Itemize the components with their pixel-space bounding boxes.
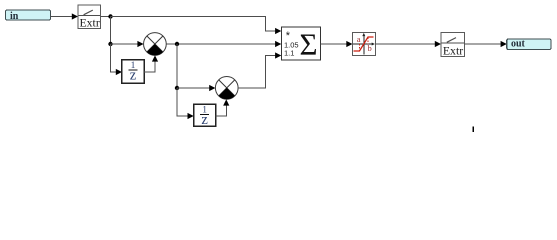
junction node B bbox=[108, 42, 112, 46]
summing junction S1 bbox=[144, 33, 167, 56]
wire S2 output to sum-block input 3 bbox=[238, 56, 276, 89]
svg-text:Extr: Extr bbox=[443, 43, 463, 57]
wire Extr1 output to junction bbox=[101, 16, 111, 18]
svg-text:z: z bbox=[130, 68, 137, 84]
wire saturation to Extr2 bbox=[376, 43, 437, 45]
svg-text:z: z bbox=[201, 112, 208, 128]
stray tick mark bbox=[472, 127, 474, 133]
wire node A down to node B bbox=[110, 17, 112, 45]
wire node D down to unit-delay 2 input bbox=[177, 88, 189, 116]
svg-text:out: out bbox=[511, 39, 526, 50]
wire node A to sum-block input 1 (top route) bbox=[111, 17, 277, 32]
wire node B down to unit-delay 1 input bbox=[111, 44, 118, 72]
weighted sum block U2 (BIGSOM) bbox=[281, 27, 320, 62]
svg-text:a: a bbox=[357, 34, 361, 44]
junction node D bbox=[175, 86, 179, 90]
wire Z2 output up into S2 bbox=[216, 104, 227, 116]
svg-text:b: b bbox=[368, 43, 372, 53]
wire node B to summer S1 bbox=[111, 43, 139, 45]
wire node D to summer S2 bbox=[177, 87, 210, 89]
summing junction S2 bbox=[215, 77, 238, 100]
wire in to Extr1 bbox=[51, 13, 79, 19]
unit delay block 1/z Z2 bbox=[194, 104, 216, 128]
block Extr U4 bbox=[441, 33, 464, 58]
wire S1 output to junction C and sum-block input 2 bbox=[166, 43, 276, 45]
svg-text:Extr: Extr bbox=[79, 15, 99, 29]
input port block "in" bbox=[6, 10, 51, 22]
wire sum block to saturation bbox=[320, 43, 347, 45]
wire node C down to node D bbox=[176, 44, 178, 88]
junction node A bbox=[108, 14, 112, 18]
svg-text:1.1: 1.1 bbox=[284, 49, 294, 58]
wire Z1 output up into S1 bbox=[144, 60, 155, 72]
svg-text:in: in bbox=[10, 11, 19, 22]
junction node C bbox=[175, 42, 179, 46]
wire Extr2 to out port bbox=[464, 43, 502, 45]
unit delay block 1/z Z1 bbox=[122, 60, 144, 84]
output port block "out" bbox=[507, 39, 551, 50]
svg-text:Σ: Σ bbox=[299, 27, 317, 62]
saturation block U3 bbox=[353, 32, 376, 55]
block Extr U1 bbox=[78, 5, 101, 29]
